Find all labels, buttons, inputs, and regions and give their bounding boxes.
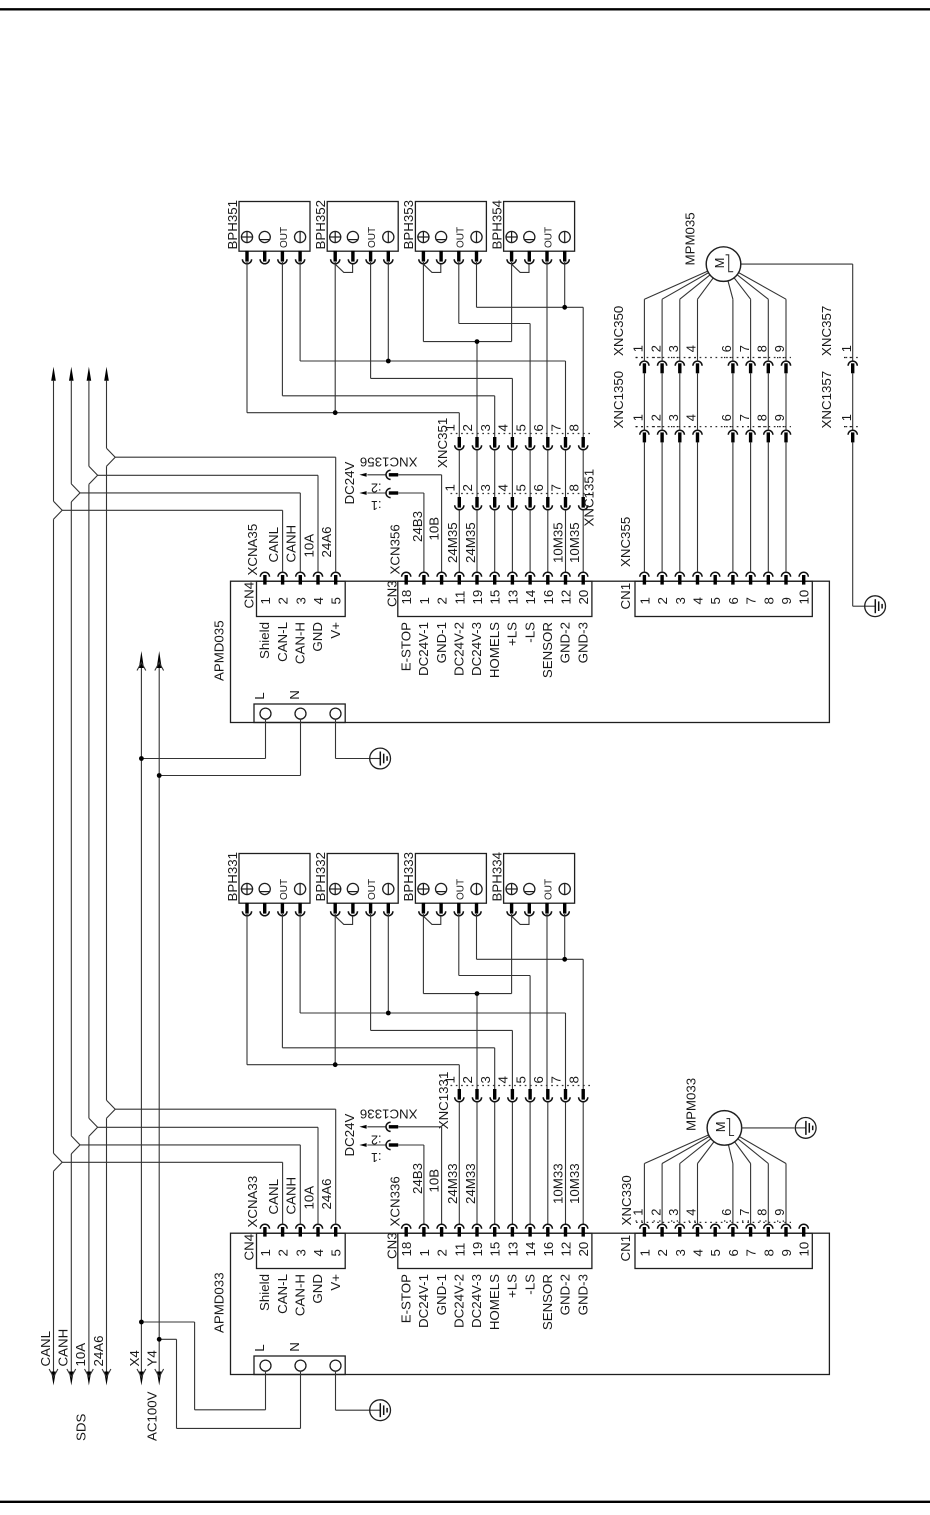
svg-text:11: 11 — [452, 591, 467, 605]
svg-text:19: 19 — [470, 1242, 485, 1257]
svg-text:24B3: 24B3 — [410, 1163, 425, 1194]
svg-text:: 7: : 7 — [737, 345, 752, 359]
svg-text:10M33: 10M33 — [551, 1163, 566, 1204]
junction dot — [475, 991, 480, 996]
drawing frame bottom border — [0, 1501, 930, 1503]
svg-text:5: 5 — [513, 424, 528, 431]
connector XNC1357 pin :1 — [819, 371, 860, 443]
svg-text:3: 3 — [673, 597, 688, 604]
svg-text:20: 20 — [576, 1242, 591, 1257]
connector row XNC1350 — [611, 371, 791, 443]
svg-text:7: 7 — [549, 424, 564, 431]
wire PE terminal to earth — [336, 1371, 370, 1410]
svg-text:OUT: OUT — [455, 227, 466, 248]
svg-text:4: 4 — [496, 424, 511, 431]
bus labels CANL CANH 10A 24A6 at bottom — [38, 1329, 106, 1367]
svg-text:MPM033: MPM033 — [683, 1078, 698, 1131]
wire BPH354 OUT to XNC351:6 — [546, 262, 548, 437]
svg-text:CANL: CANL — [266, 1179, 281, 1214]
svg-text:: 3: : 3 — [666, 1209, 681, 1223]
svg-text:XCNA35: XCNA35 — [245, 524, 260, 576]
wire net GND-3: BPH353/BPH354 minus to XNC351:8 — [477, 262, 584, 437]
svg-text:CN3: CN3 — [385, 1232, 400, 1259]
svg-text:XNC1357: XNC1357 — [819, 371, 834, 429]
svg-text:APMD033: APMD033 — [211, 1272, 226, 1333]
svg-text:2: 2 — [276, 597, 291, 604]
svg-text:BPH354: BPH354 — [489, 200, 504, 250]
svg-text:OUT: OUT — [544, 227, 555, 248]
svg-text:10B: 10B — [426, 1169, 441, 1193]
svg-text:12: 12 — [559, 1242, 574, 1257]
junction dot — [333, 1062, 338, 1067]
wire BPH352 OUT to XNC351:4 — [371, 262, 513, 437]
svg-text:10B: 10B — [426, 517, 441, 541]
svg-text:: 7: : 7 — [737, 414, 752, 428]
svg-text:GND: GND — [310, 1274, 325, 1304]
svg-text:3: 3 — [293, 597, 308, 604]
svg-text:V+: V+ — [328, 1274, 343, 1291]
labels X4 Y4 — [127, 1350, 160, 1366]
svg-text:BPH332: BPH332 — [313, 852, 328, 902]
svg-text:OUT: OUT — [367, 227, 378, 248]
svg-text:BPH352: BPH352 — [313, 200, 328, 250]
svg-text:E-STOP: E-STOP — [398, 1274, 413, 1323]
photo sensor BPH353 — [401, 200, 486, 264]
svg-text:24A6: 24A6 — [91, 1335, 106, 1366]
photo sensor BPH352 — [313, 200, 398, 264]
svg-text:1: 1 — [443, 484, 458, 491]
svg-text:19: 19 — [470, 590, 485, 605]
svg-text:8: 8 — [761, 1249, 776, 1256]
svg-text:XNC1351: XNC1351 — [582, 469, 597, 527]
svg-text:1: 1 — [417, 597, 432, 604]
svg-text:MPM035: MPM035 — [683, 212, 698, 265]
svg-text:24B3: 24B3 — [410, 511, 425, 542]
svg-text:SENSOR: SENSOR — [540, 1274, 555, 1330]
svg-text:BPH334: BPH334 — [489, 852, 504, 902]
svg-text:N: N — [287, 1342, 302, 1352]
svg-text:11: 11 — [452, 1243, 467, 1257]
controller unit APMD033 — [211, 1233, 829, 1374]
svg-text:12: 12 — [559, 590, 574, 605]
connector XNC357 pin :1 — [819, 306, 860, 374]
wires XNC1350 to CN1 pins — [644, 443, 786, 573]
DC24V source with connector XNC1356 — [342, 454, 418, 511]
svg-text:18: 18 — [399, 1242, 414, 1257]
svg-text:CAN-H: CAN-H — [293, 622, 308, 664]
svg-text:M: M — [712, 258, 727, 269]
connector XNC1331 pins 1-8 — [436, 1072, 591, 1130]
ground symbol (APMD035 earth) — [370, 748, 391, 769]
connector CN3 (XCN336) pins 18-20 — [385, 1176, 592, 1268]
svg-text:8: 8 — [566, 424, 581, 431]
svg-text:APMD035: APMD035 — [211, 620, 226, 681]
svg-text:13: 13 — [505, 1242, 520, 1257]
jumper pin1-pin2 — [335, 264, 352, 272]
svg-text:XNC1336: XNC1336 — [360, 1106, 418, 1121]
svg-text:GND-3: GND-3 — [575, 622, 590, 663]
svg-text::2: :2 — [371, 481, 382, 495]
jumper pin1-pin2 — [335, 916, 352, 924]
svg-text:GND-3: GND-3 — [575, 1274, 590, 1315]
photo sensor BPH333 — [401, 852, 486, 916]
svg-text:3: 3 — [478, 424, 493, 431]
svg-text:: 6: : 6 — [719, 345, 734, 359]
jumper pin1-pin2 — [423, 264, 440, 272]
svg-text:5: 5 — [708, 597, 723, 604]
svg-text:9: 9 — [779, 597, 794, 604]
svg-text:14: 14 — [523, 590, 538, 605]
svg-text:2: 2 — [435, 1249, 450, 1256]
svg-text:OUT: OUT — [544, 879, 555, 900]
svg-text:GND-1: GND-1 — [434, 622, 449, 663]
svg-text:: 8: : 8 — [755, 345, 770, 359]
wire net DC24V-2: BPH351/BPH352 plus to XNC351:1 — [247, 262, 459, 437]
junction dot on Y4 — [157, 1337, 162, 1342]
svg-text:CAN-L: CAN-L — [275, 1274, 290, 1314]
wire CN4 pin2 CAN-L to CANL bus — [62, 510, 282, 572]
svg-text:AC100V: AC100V — [145, 1391, 160, 1441]
ground symbol (MPM035 earth) — [865, 596, 886, 617]
svg-text:XNC357: XNC357 — [819, 306, 834, 356]
wire 24B3: XNC1336:1 to XCN336 pin 1 — [398, 1145, 424, 1224]
connector CN1 (XNC330) pins 1-10 — [618, 1224, 812, 1268]
wire L terminal to X4 — [141, 719, 265, 758]
wire BPH333 OUT to XNC1331:5 — [459, 914, 530, 1089]
ground symbol (MPM033 earth) — [795, 1118, 816, 1139]
svg-text:2: 2 — [655, 597, 670, 604]
connector CN4 (XCNA35) pins 1-5 — [242, 524, 346, 617]
svg-text:2: 2 — [655, 1249, 670, 1256]
SDS bus line 24A6 — [102, 367, 111, 1386]
svg-text:+LS: +LS — [505, 622, 520, 646]
SDS bus line CANL — [49, 367, 58, 1386]
svg-text:-LS: -LS — [522, 622, 537, 643]
SDS bus line CANH — [67, 367, 76, 1386]
svg-text:2: 2 — [435, 597, 450, 604]
svg-text:16: 16 — [541, 590, 556, 605]
bus entry kinks — [54, 1100, 116, 1171]
svg-text:4: 4 — [496, 484, 511, 491]
svg-text:3: 3 — [478, 1076, 493, 1083]
svg-text:DC24V-2: DC24V-2 — [452, 622, 467, 676]
wire 10B: XNC1336:2 to XCN336 pin 2 — [398, 1127, 441, 1225]
svg-text:24A6: 24A6 — [319, 1178, 334, 1209]
svg-text:SDS: SDS — [74, 1414, 89, 1441]
CN3 signal labels — [398, 1274, 590, 1330]
svg-text:CN4: CN4 — [242, 1234, 257, 1261]
svg-text:CANL: CANL — [266, 527, 281, 562]
svg-text:-LS: -LS — [522, 1274, 537, 1295]
svg-text:XNC351: XNC351 — [435, 418, 450, 468]
svg-text:24M35: 24M35 — [463, 522, 478, 563]
svg-text:1: 1 — [637, 597, 652, 604]
svg-text:SENSOR: SENSOR — [540, 622, 555, 678]
svg-text:HOMELS: HOMELS — [487, 622, 502, 678]
svg-text::2: :2 — [371, 1133, 382, 1147]
wire net DC24V-3: BPH353/BPH354 plus to XNC351:2 — [423, 262, 511, 437]
svg-text:XNC355: XNC355 — [618, 517, 633, 567]
wire PE terminal to earth — [336, 719, 370, 758]
junction dot — [562, 957, 567, 962]
jumper pin1-pin2 — [512, 916, 529, 924]
wire CN4 pin4 GND to 10A bus — [98, 475, 318, 572]
svg-text:1: 1 — [637, 1249, 652, 1256]
svg-text:: 1: : 1 — [839, 345, 854, 359]
svg-text:DC24V: DC24V — [342, 1114, 357, 1157]
svg-text:: 3: : 3 — [666, 414, 681, 428]
svg-text:V+: V+ — [328, 622, 343, 639]
svg-text:: 1: : 1 — [631, 345, 646, 359]
wire CN4 pin3 CAN-H to CANH bus — [80, 493, 300, 573]
svg-text:GND-2: GND-2 — [558, 1274, 573, 1315]
svg-text:24M33: 24M33 — [445, 1163, 460, 1204]
junction dot — [333, 410, 338, 415]
svg-text:10: 10 — [797, 1242, 812, 1257]
svg-text:1: 1 — [417, 1249, 432, 1256]
CN4 signal labels Shield CAN-L CAN-H GND V+ — [257, 1274, 343, 1316]
svg-text:: 8: : 8 — [755, 1209, 770, 1223]
svg-text:CN1: CN1 — [618, 1235, 633, 1262]
svg-text:CN3: CN3 — [385, 580, 400, 607]
svg-text:L: L — [252, 1344, 267, 1351]
wire BPH334 OUT to XNC1331:6 — [546, 914, 548, 1089]
svg-text:M: M — [713, 1121, 728, 1132]
svg-text:8: 8 — [761, 597, 776, 604]
svg-text:OUT: OUT — [279, 227, 290, 248]
svg-text:: 2: : 2 — [648, 414, 663, 428]
wire 24B3: XNC1356:1 to XCN356 pin 1 — [398, 493, 424, 572]
svg-text:4: 4 — [311, 597, 326, 604]
svg-text:XNC330: XNC330 — [619, 1175, 634, 1225]
svg-text:1: 1 — [258, 1249, 273, 1256]
svg-text:DC24V: DC24V — [342, 462, 357, 505]
svg-text:XCNA33: XCNA33 — [245, 1176, 260, 1228]
svg-text:7: 7 — [549, 1076, 564, 1083]
svg-text:BPH333: BPH333 — [401, 852, 416, 902]
svg-text:+LS: +LS — [505, 1274, 520, 1298]
connector row XNC330 on CN1 — [619, 1175, 791, 1225]
jumper pin1-pin2 — [423, 916, 440, 924]
svg-text:5: 5 — [708, 1249, 723, 1256]
svg-text:DC24V-2: DC24V-2 — [452, 1274, 467, 1328]
wire 10B: XNC1356:2 to XCN356 pin 2 — [398, 475, 441, 573]
CN4 wire name labels CANL CANH 10A 24A6 — [266, 1177, 334, 1215]
svg-text:4: 4 — [691, 597, 706, 604]
svg-text:5: 5 — [329, 597, 344, 604]
svg-text:3: 3 — [293, 1249, 308, 1256]
svg-text:CN1: CN1 — [618, 583, 633, 610]
svg-text:7: 7 — [744, 597, 759, 604]
svg-text:4: 4 — [691, 1249, 706, 1256]
svg-text:5: 5 — [329, 1249, 344, 1256]
svg-text:DC24V-1: DC24V-1 — [416, 622, 431, 676]
wires XNC351 to XNC1351 — [459, 450, 583, 497]
junction dot — [475, 339, 480, 344]
wire Y4 to N terminal (AC100V) — [159, 1339, 300, 1428]
svg-text:: 4: : 4 — [684, 414, 699, 428]
connector CN3 (XCN356) pins 18-20 — [385, 524, 592, 616]
AC100V line Y4 — [155, 651, 164, 1386]
svg-text:: 9: : 9 — [772, 414, 787, 428]
wire BPH331 OUT to XNC1331:3 — [282, 914, 494, 1089]
wire BPH332 OUT to XNC1331:4 — [371, 914, 513, 1089]
wire X4 to L terminal (AC100V) — [141, 1322, 265, 1410]
connector CN1 (XNC355) pins 1-10 — [618, 572, 812, 616]
svg-text:15: 15 — [488, 1242, 503, 1257]
svg-text:6: 6 — [726, 597, 741, 604]
svg-text:CANL: CANL — [38, 1331, 53, 1366]
svg-text:BPH353: BPH353 — [401, 200, 416, 250]
junction dot — [386, 359, 391, 364]
svg-text:: 8: : 8 — [755, 414, 770, 428]
wire CN4 pin4 GND to 10A bus — [98, 1127, 318, 1224]
svg-text:3: 3 — [673, 1249, 688, 1256]
svg-text:10A: 10A — [301, 1186, 316, 1210]
photo sensor BPH354 — [489, 200, 574, 264]
svg-text:DC24V-1: DC24V-1 — [416, 1274, 431, 1328]
svg-text:XNC1350: XNC1350 — [611, 371, 626, 429]
svg-text:: 4: : 4 — [684, 345, 699, 359]
junction dot — [562, 305, 567, 310]
svg-text:L: L — [252, 692, 267, 699]
svg-text::1: :1 — [371, 1150, 382, 1164]
connector XNC1351 pins 1-8 — [443, 469, 597, 527]
svg-text::1: :1 — [371, 498, 382, 512]
svg-text:24A6: 24A6 — [319, 526, 334, 557]
connector XNC351 pins 1-8 — [435, 418, 592, 468]
svg-text:CAN-L: CAN-L — [275, 622, 290, 662]
bus entry kinks — [54, 448, 116, 519]
CN4 signal labels Shield CAN-L CAN-H GND V+ — [257, 622, 343, 664]
svg-text:7: 7 — [549, 484, 564, 491]
photo sensor BPH331 — [225, 852, 310, 916]
svg-text:10A: 10A — [301, 534, 316, 558]
svg-text:10M35: 10M35 — [567, 522, 582, 563]
photo sensor BPH351 — [225, 200, 310, 264]
junction dot — [386, 1011, 391, 1016]
svg-text:8: 8 — [566, 484, 581, 491]
svg-text:CANH: CANH — [284, 1177, 299, 1215]
svg-text:CAN-H: CAN-H — [293, 1274, 308, 1316]
svg-text:: 9: : 9 — [772, 345, 787, 359]
svg-text:: 3: : 3 — [666, 345, 681, 359]
motor MPM035 — [683, 212, 741, 281]
wire MPM033 to earth — [741, 1127, 795, 1129]
motor MPM033 fan-out wires — [644, 1128, 786, 1225]
svg-text:XNC350: XNC350 — [611, 306, 626, 356]
svg-text:10M33: 10M33 — [567, 1163, 582, 1204]
svg-text:7: 7 — [744, 1249, 759, 1256]
svg-text:10: 10 — [797, 590, 812, 605]
wire MPM035 to earth via XNC357 — [740, 264, 865, 606]
svg-text:24M33: 24M33 — [463, 1163, 478, 1204]
connector CN4 (XCNA33) pins 1-5 — [242, 1176, 346, 1269]
svg-text:CN4: CN4 — [242, 582, 257, 609]
wire CN4 pin5 V+ to 24A6 bus — [115, 1109, 336, 1224]
svg-text:XNC1356: XNC1356 — [360, 454, 418, 469]
svg-text:9: 9 — [779, 1249, 794, 1256]
svg-text:6: 6 — [726, 1249, 741, 1256]
wire CN4 pin2 CAN-L to CANL bus — [62, 1162, 282, 1224]
svg-text:OUT: OUT — [367, 879, 378, 900]
svg-text:GND: GND — [310, 622, 325, 652]
svg-text:E-STOP: E-STOP — [398, 622, 413, 671]
svg-text:14: 14 — [523, 1242, 538, 1257]
wire net DC24V-2: BPH331/BPH332 plus to XNC1331:1 — [247, 914, 459, 1089]
motor MPM033 — [683, 1078, 741, 1145]
svg-text:X4: X4 — [127, 1350, 142, 1366]
svg-text:5: 5 — [513, 1076, 528, 1083]
svg-text:6: 6 — [531, 424, 546, 431]
svg-text:XNC1331: XNC1331 — [436, 1072, 451, 1130]
svg-text:4: 4 — [311, 1249, 326, 1256]
svg-text:Shield: Shield — [257, 1274, 272, 1311]
junction dot on X4 — [139, 1320, 144, 1325]
svg-text:: 2: : 2 — [648, 345, 663, 359]
svg-text:: 6: : 6 — [719, 1209, 734, 1223]
svg-text:XCN336: XCN336 — [387, 1176, 402, 1226]
wire BPH351 OUT to XNC351:3 — [282, 262, 494, 437]
svg-text:GND-2: GND-2 — [558, 622, 573, 663]
svg-text:DC24V-3: DC24V-3 — [469, 1274, 484, 1328]
svg-text:CANH: CANH — [56, 1329, 71, 1367]
wire net GND-3: BPH333/BPH334 minus to XNC1331:8 — [477, 914, 584, 1089]
drawing frame top border — [0, 8, 930, 10]
svg-text:15: 15 — [488, 590, 503, 605]
svg-text:4: 4 — [496, 1076, 511, 1083]
svg-text:BPH331: BPH331 — [225, 852, 240, 902]
wire BPH353 OUT to XNC351:5 — [459, 262, 530, 437]
svg-text:: 2: : 2 — [648, 1209, 663, 1223]
svg-text:CANH: CANH — [284, 525, 299, 563]
ground symbol (APMD033 earth) — [370, 1400, 391, 1421]
svg-text:OUT: OUT — [455, 879, 466, 900]
svg-text:: 6: : 6 — [719, 414, 734, 428]
wire net GND-2: BPH331/BPH332 minus to XNC1331:7 — [300, 914, 565, 1089]
wires XNC1351 to XCN356 pins 11-20 — [459, 510, 583, 572]
svg-text:2: 2 — [460, 1076, 475, 1083]
svg-text:GND-1: GND-1 — [434, 1274, 449, 1315]
svg-text:BPH351: BPH351 — [225, 200, 240, 250]
svg-text:24M35: 24M35 — [445, 522, 460, 563]
terminal strip L N PE — [252, 690, 345, 722]
photo sensor BPH332 — [313, 852, 398, 916]
svg-text:20: 20 — [576, 590, 591, 605]
terminal strip L N PE — [252, 1342, 345, 1374]
svg-text:Shield: Shield — [257, 622, 272, 659]
junction dot on Y4 — [157, 773, 162, 778]
svg-text:13: 13 — [505, 590, 520, 605]
svg-text:2: 2 — [460, 424, 475, 431]
svg-text:N: N — [287, 690, 302, 700]
wires XNC350 to XNC1350 — [644, 373, 786, 430]
svg-text:10A: 10A — [73, 1343, 88, 1367]
svg-text:: 7: : 7 — [737, 1209, 752, 1223]
wire net DC24V-3: BPH333/BPH334 plus to XNC1331:2 — [423, 914, 511, 1089]
svg-text:: 1: : 1 — [839, 414, 854, 428]
svg-text:DC24V-3: DC24V-3 — [469, 622, 484, 676]
wire N terminal to Y4 — [159, 719, 300, 775]
svg-text:6: 6 — [531, 484, 546, 491]
svg-text:8: 8 — [566, 1076, 581, 1083]
DC24V source with connector XNC1336 — [342, 1106, 418, 1163]
svg-text:OUT: OUT — [279, 879, 290, 900]
svg-text:16: 16 — [541, 1242, 556, 1257]
junction dot on X4 — [139, 756, 144, 761]
svg-text:5: 5 — [513, 484, 528, 491]
wire CN4 pin5 V+ to 24A6 bus — [115, 457, 336, 572]
